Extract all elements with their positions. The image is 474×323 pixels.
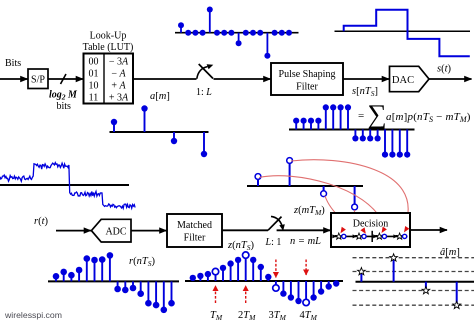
decision constellation star +A [376,233,383,239]
svg-text:00: 00 [89,57,99,68]
block DAC [390,66,430,91]
svg-text:+ A: + A [111,81,126,92]
decision region arrows on axis [332,234,397,238]
svg-text:z(mTM): z(mTM) [293,205,325,217]
plot a-hat[m]: dashed level -A [353,290,474,292]
plot a-hat[m]: dashed level -3A [353,304,474,306]
decision constellation circle +A [382,234,386,238]
wire: bits input arrow into S/P [0,78,28,80]
plot a[m]: stems [111,105,207,157]
svg-text:z(nTS): z(nTS) [227,240,254,252]
svg-text:Table (LUT): Table (LUT) [83,42,134,53]
block look-up table box [84,54,134,104]
a-hat stem and star at -A [422,282,430,294]
a-hat stem and star at +A [358,268,366,282]
red mapping curve from z(mTM) sample 4 to decision level -3A [344,210,355,227]
wire: ADC to matched filter [131,230,167,232]
svg-text:m: m [373,123,379,132]
plot upsampled sequence: stems [178,7,292,59]
plot a-hat[m]: solid axis [356,281,474,283]
equation s[nTs] = sum a[m] p(nTs - mTM) [358,99,471,132]
decision constellation star -A [356,233,363,239]
svg-text:1: L: 1: L [196,87,212,98]
plot r(nTs): stems [53,252,175,313]
wire: upsampler to pulse shaping filter [214,78,271,80]
plot r(t): noisy blue waveform [0,163,135,209]
red arrowhead onto level -A [360,227,365,233]
red arrowhead onto level +A [382,227,387,233]
svg-text:s[nTS]: s[nTS] [352,86,378,98]
svg-text:Look-Up: Look-Up [90,31,127,42]
upsampler switch 1:L [197,64,214,79]
plot r(nTs): axis [48,280,179,282]
svg-text:01: 01 [89,69,99,80]
svg-text:− 3A: − 3A [109,57,129,68]
block S/P (serial to parallel) [28,69,48,89]
svg-text:=: = [358,110,364,122]
svg-text:Filter: Filter [296,82,318,93]
plot a[m]: axis [110,131,209,133]
decision constellation circle +3A [403,234,407,238]
a-hat stem and star at +3A [390,254,398,282]
plot s(t) staircase: blue waveform [344,10,470,57]
plot s[nTs]: axis [289,129,415,131]
red arrowhead onto level +3A [404,226,409,232]
red mapping curve from z(mTM) sample 2 to decision level +3A [291,160,408,224]
plot s(t) staircase: axis [335,30,471,32]
label Look-Up Table (LUT) title [83,31,134,54]
wire: S/P to LUT arrow [48,78,83,80]
svg-text:Pulse Shaping: Pulse Shaping [279,69,336,80]
plot z(mTM): axis [247,185,363,187]
svg-text:L: 1: L: 1 [265,237,282,248]
svg-text:Bits: Bits [5,58,21,69]
svg-text:bits: bits [57,101,72,112]
wire: matched filter to downsampler [222,229,268,231]
svg-text:DAC: DAC [392,75,414,86]
red mapping curve from z(mTM) sample 3 to decision level -A [325,196,362,229]
svg-text:â[m]: â[m] [440,247,460,258]
svg-text:+ 3A: + 3A [109,93,129,104]
svg-text:r(nTS): r(nTS) [129,256,155,268]
red sampling arrow up at 2TM [245,286,247,304]
svg-text:S/P: S/P [31,75,45,86]
block matched filter [167,214,222,247]
svg-text:10: 10 [89,81,99,92]
a-hat stem and star at -3A [453,282,461,309]
red sampling arrow down at 4TM [305,260,307,276]
svg-text:a[m]: a[m] [150,91,170,102]
wire: r(t) arrow into ADC [56,230,91,232]
wire: decision output arrow [410,229,447,231]
decision constellation circle -3A [342,234,346,238]
svg-text:r(t): r(t) [34,216,49,227]
label log2 M bits [49,90,78,113]
plot a-hat[m]: dashed level +3A [353,257,474,259]
wire: pulse shaping filter to DAC [343,78,389,80]
svg-text:11: 11 [89,93,99,104]
plot a-hat[m]: dashed level +A [353,271,474,273]
decision constellation axis [335,231,408,242]
wire: downsampler to decision arrow [277,229,331,231]
red mapping curve from z(mTM) sample 1 to decision level +A [259,176,384,225]
svg-text:− A: − A [111,69,126,80]
plot upsampled sequence: axis [175,32,299,34]
downsampler switch L:1 [268,216,285,230]
plot s[nTs]: stems [293,104,410,157]
red arrowhead onto level -3A [341,227,346,233]
svg-text:a[m]p(nTS − mTM): a[m]p(nTS − mTM) [386,111,471,124]
wire: LUT to upsampler [133,78,197,80]
red sampling arrow down at 3TM [275,260,277,278]
block decision [331,213,410,247]
block pulse shaping filter [271,63,343,95]
svg-text:n = mL: n = mL [290,236,321,247]
bus width slash on wire [61,74,67,84]
svg-text:ADC: ADC [105,227,126,238]
plot z(mTM): stems with open circles [255,158,357,210]
plot r(t): axis [0,184,129,186]
decision constellation star +3A [396,233,403,239]
decision constellation star -3A [335,233,342,239]
decision constellation circle -A [362,234,366,238]
svg-text:Matched: Matched [177,220,212,231]
svg-text:wirelesspi.com: wirelesspi.com [4,310,62,320]
plot z(nTs): stems [190,252,340,306]
plot z(nTs): axis [185,280,343,282]
svg-text:Filter: Filter [184,233,206,244]
red sampling arrow up at TM [215,286,217,304]
svg-text:s(t): s(t) [437,64,452,75]
block ADC [91,219,131,242]
wire: DAC output arrow s(t) [429,78,472,80]
